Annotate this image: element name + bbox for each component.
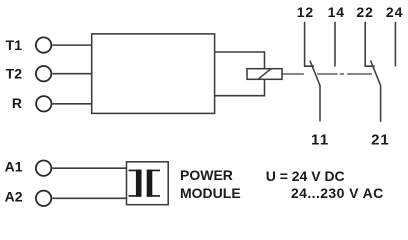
contact arm 11-12 [310, 61, 320, 122]
relay coil K1 [247, 69, 282, 80]
svg-text:21: 21 [371, 131, 390, 148]
svg-text:T1: T1 [6, 37, 23, 53]
svg-text:A1: A1 [5, 158, 23, 174]
svg-text:22: 22 [356, 4, 373, 20]
svg-text:11: 11 [311, 131, 330, 148]
svg-text:A2: A2 [5, 189, 23, 205]
terminal circle T2 [36, 66, 51, 81]
wire R [52, 103, 91, 105]
svg-text:U = 24 V DC: U = 24 V DC [266, 168, 345, 184]
svg-text:POWER: POWER [180, 167, 233, 183]
terminal circle A1 [36, 161, 51, 176]
mechanical linkage wire [282, 73, 372, 75]
svg-text:24...230 V AC: 24...230 V AC [291, 185, 384, 201]
wire T1 [52, 44, 91, 46]
terminal circle A2 [36, 191, 51, 206]
wire A2 [52, 197, 126, 199]
transformer icon left winding [129, 170, 142, 196]
transformer icon right winding [147, 170, 160, 196]
terminal line 24 [394, 22, 396, 67]
terminal circle R [36, 96, 51, 111]
wire coil top [215, 52, 265, 69]
main module box [92, 34, 215, 114]
power module box [127, 162, 169, 205]
svg-text:12: 12 [297, 4, 314, 20]
wire T2 [52, 73, 91, 75]
svg-text:MODULE: MODULE [180, 185, 241, 201]
relay coil slash [258, 69, 271, 80]
terminal line 12 with contact seat [305, 22, 314, 66]
wire A1 [52, 167, 126, 169]
terminal line 22 with contact seat [365, 22, 374, 66]
svg-text:14: 14 [328, 4, 345, 20]
svg-text:R: R [12, 95, 22, 111]
wire coil bottom [215, 79, 265, 95]
terminal line 14 [334, 22, 336, 67]
terminal circle T1 [36, 37, 51, 52]
svg-text:T2: T2 [6, 66, 23, 82]
svg-text:24: 24 [386, 4, 403, 20]
contact arm 21-22 [371, 61, 381, 122]
